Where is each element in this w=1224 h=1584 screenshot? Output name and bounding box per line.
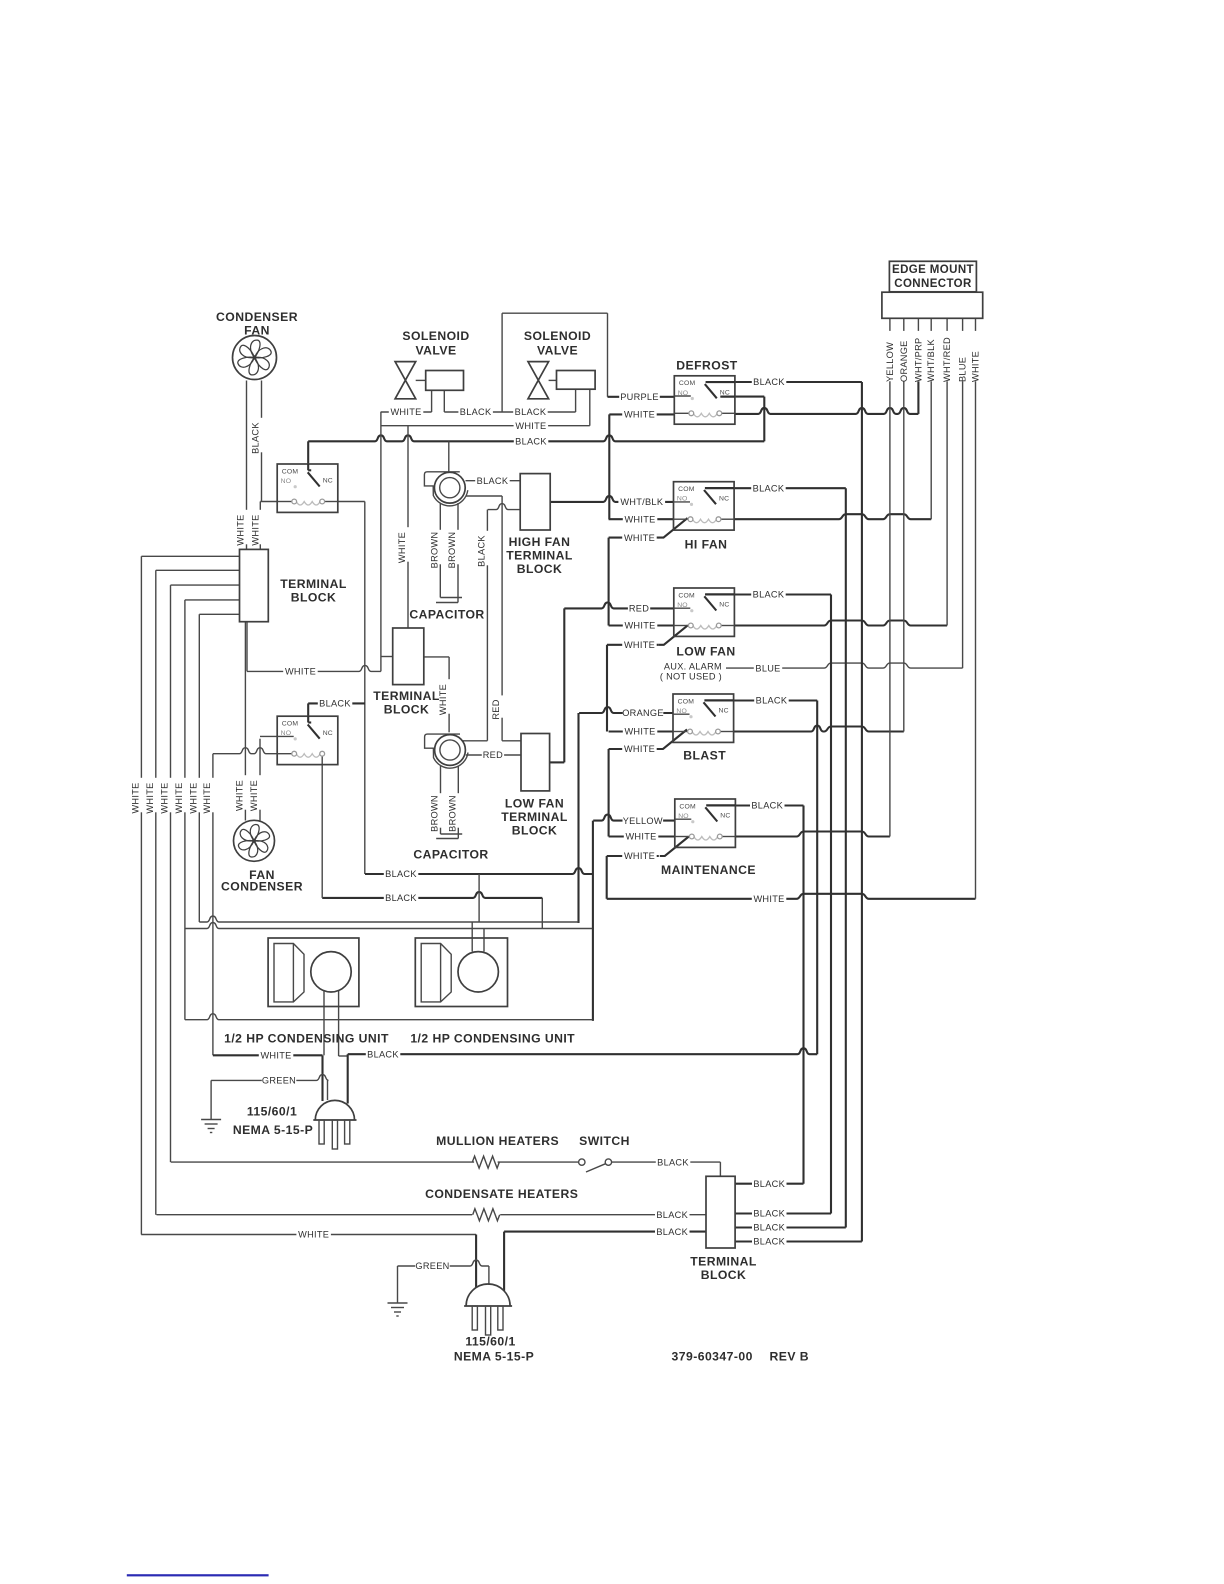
svg-text:BLACK: BLACK [515, 407, 547, 417]
wire: BLACK row2 from S2 [322, 892, 542, 898]
svg-text:TERMINAL: TERMINAL [280, 577, 347, 591]
wire label BLACK [752, 1223, 787, 1233]
wire label WHITE [752, 895, 787, 905]
svg-text:BROWN: BROWN [447, 532, 457, 569]
wire: left TB rows to bus wires [141, 555, 239, 557]
svg-text:WHT/PRP: WHT/PRP [913, 338, 923, 382]
svg-text:SWITCH: SWITCH [579, 1134, 630, 1148]
switch BLAST [673, 694, 734, 742]
svg-text:BLACK: BLACK [753, 1237, 785, 1247]
wire label WHITE (vertical) [255, 775, 265, 810]
svg-text:NC: NC [720, 813, 730, 820]
wire: mid TB right to blower2 [424, 656, 449, 658]
wire: MAINT rowC white + chain down to white return [607, 855, 659, 857]
wire: switch S1 NC to black bus [338, 501, 365, 503]
condensate heater resistor R2 [473, 1209, 500, 1221]
wire: MAINTENANCE COM black [707, 804, 804, 806]
condensing unit 2 box [415, 938, 507, 1007]
svg-text:CAPACITOR: CAPACITOR [413, 848, 488, 862]
svg-text:WHITE: WHITE [624, 744, 655, 754]
svg-text:HIGH FAN: HIGH FAN [509, 535, 571, 549]
svg-text:WHITE: WHITE [130, 782, 140, 813]
wire: mullion heaters row [171, 1161, 474, 1163]
svg-text:WHITE: WHITE [624, 727, 655, 737]
svg-text:NO: NO [281, 730, 292, 737]
wire label WHITE [389, 408, 424, 418]
wire: bottom TB right rows to switch buses [735, 1183, 803, 1185]
wire: solenoid WHITE row y425.7 [381, 425, 590, 427]
svg-text:CONNECTOR: CONNECTOR [894, 278, 972, 290]
wire label WHT/BLK [618, 498, 665, 508]
compressor symbol unit1 [274, 944, 304, 1002]
svg-text:WHITE: WHITE [971, 351, 981, 382]
svg-text:YELLOW: YELLOW [885, 342, 895, 382]
svg-text:BLACK: BLACK [657, 1157, 689, 1167]
wire label BLACK [384, 894, 419, 904]
svg-text:BLACK: BLACK [753, 1209, 785, 1219]
switch MAINTENANCE [675, 799, 736, 847]
wire: MAINT black bus [802, 806, 804, 1184]
svg-text:COM: COM [282, 468, 299, 475]
wire label BLACK [655, 1227, 690, 1237]
low fan terminal block TB4 [521, 734, 550, 791]
wire: WHITE return row to edge WHITE [607, 894, 976, 899]
wire: BLAST rowC white + chain [609, 748, 659, 750]
wire: white row y922 to unit2 motor and orange riser [199, 916, 578, 922]
wire: LOW FAN rowC white + chain [607, 644, 659, 646]
wire: brown capacitor1 leads [439, 503, 441, 598]
wire label BLACK [750, 801, 785, 811]
svg-text:WHITE: WHITE [260, 1051, 291, 1061]
wire: valve2 coil leads [575, 389, 577, 412]
wire: LOW FAN black bus [830, 595, 832, 1214]
svg-text:1/2 HP CONDENSING UNIT: 1/2 HP CONDENSING UNIT [224, 1032, 389, 1046]
wire: S2 COM black to bus [308, 702, 365, 704]
wire: unit2 motor leads [471, 922, 473, 952]
wire: S2 rowA to fan condenser lead [260, 735, 277, 737]
wire: green2 to plug2 and ground [398, 1260, 489, 1266]
wire: HI FAN rowB white to edge WHT/BLK [609, 518, 674, 520]
wire: edge WHT/RED down to low fan rowB [946, 381, 948, 625]
svg-text:COM: COM [678, 486, 695, 493]
svg-text:NO: NO [676, 708, 687, 715]
svg-text:WHITE: WHITE [624, 533, 655, 543]
svg-text:1/2 HP CONDENSING UNIT: 1/2 HP CONDENSING UNIT [410, 1032, 575, 1046]
wire: heavy BLACK row y441 defrost loop [308, 435, 764, 441]
power plug P2 NEMA 5-15-P [464, 1284, 512, 1335]
wire label WHITE [623, 621, 658, 631]
wire: left white bus verticals [140, 556, 142, 1234]
wire: edge connector stubs [889, 318, 891, 331]
svg-text:BLACK: BLACK [460, 407, 492, 417]
wire: GREEN to plug1 and ground [211, 1074, 328, 1080]
wire: BLAST COM black [705, 699, 817, 701]
wire: edge ORANGE down to blast rowB [903, 381, 905, 731]
svg-text:NEMA 5-15-P: NEMA 5-15-P [233, 1123, 313, 1137]
svg-text:BLOCK: BLOCK [512, 824, 558, 838]
svg-text:TERMINAL: TERMINAL [506, 549, 573, 563]
svg-text:BLACK: BLACK [656, 1210, 688, 1220]
svg-text:WHITE: WHITE [390, 407, 421, 417]
wire: solenoid valve row WHITE/BLACK y412 [381, 411, 432, 413]
solenoid valve V1 body [395, 362, 416, 399]
svg-text:WHITE: WHITE [624, 410, 655, 420]
svg-text:YELLOW: YELLOW [623, 816, 663, 826]
wire label ORANGE [623, 709, 664, 719]
svg-text:BROWN: BROWN [430, 795, 440, 832]
wire label WHITE (vertical) [194, 778, 204, 813]
condenser fan motor [233, 336, 277, 380]
wire label BROWN (vertical) [435, 530, 445, 565]
wire: HI FAN rowC white + chain down [609, 537, 659, 539]
svg-text:NC: NC [719, 602, 729, 609]
svg-text:MAINTENANCE: MAINTENANCE [661, 863, 756, 877]
wire label BLACK (vertical) [482, 531, 492, 566]
wire: WHITE row to plug1 [213, 1054, 323, 1056]
wire label BLACK [513, 408, 548, 418]
svg-text:COM: COM [678, 592, 695, 599]
blower motor B1 (high fan) [424, 472, 467, 506]
wire label BLACK [475, 476, 510, 486]
wire: HI FAN black bus [845, 488, 847, 1227]
wire: condensate heaters row [157, 1214, 473, 1216]
wire: S1 COM up to defrost loop [307, 441, 309, 464]
svg-text:NO: NO [678, 813, 689, 820]
svg-text:BLACK: BLACK [756, 696, 788, 706]
wire label WHITE [296, 1230, 331, 1240]
svg-text:WHITE: WHITE [236, 514, 246, 545]
svg-text:CONDENSER: CONDENSER [221, 880, 303, 894]
wire label WHITE (vertical) [180, 778, 190, 813]
svg-text:COM: COM [679, 380, 696, 387]
svg-text:BLACK: BLACK [656, 1227, 688, 1237]
wire: LOW FAN rowB white to edge WHT/RED [609, 624, 674, 626]
wire: BLAST black bus [816, 701, 818, 1055]
wire: BLAST rowB white to edge ORANGE [609, 730, 673, 732]
wire label BLACK [752, 1237, 787, 1247]
svg-text:115/60/1: 115/60/1 [465, 1335, 515, 1349]
svg-text:BLACK: BLACK [751, 801, 783, 811]
wire: LOW FAN COM black [705, 593, 831, 595]
wire: white feeder to S2 rowB [213, 748, 277, 754]
svg-text:NC: NC [719, 708, 729, 715]
svg-text:BLACK: BLACK [515, 437, 547, 447]
switch S1 condenser fan [277, 464, 338, 512]
svg-text:VALVE: VALVE [537, 344, 578, 358]
wire label WHITE [622, 410, 657, 420]
wire label BLACK (vertical) [257, 418, 267, 453]
wire: ORANGE feeder [579, 707, 673, 713]
svg-text:RED: RED [491, 699, 501, 719]
svg-text:VALVE: VALVE [415, 344, 456, 358]
svg-text:WHITE: WHITE [145, 782, 155, 813]
wire label WHITE [624, 832, 659, 842]
edge mount connector body [882, 292, 983, 318]
svg-text:BLAST: BLAST [683, 749, 726, 763]
svg-text:BLACK: BLACK [385, 893, 417, 903]
svg-text:WHITE: WHITE [625, 832, 656, 842]
wire label WHITE (vertical) [166, 778, 176, 813]
svg-text:MULLION HEATERS: MULLION HEATERS [436, 1134, 559, 1148]
wire: BLACK row from plug1 to blast bus [348, 1048, 818, 1054]
svg-text:DEFROST: DEFROST [676, 359, 737, 373]
svg-text:WHITE: WHITE [188, 782, 198, 813]
wire: blower1 black to high fan TB [466, 480, 521, 482]
wire label GREEN [262, 1076, 297, 1086]
svg-text:BLUE: BLUE [755, 663, 780, 673]
svg-text:BLOCK: BLOCK [701, 1268, 747, 1282]
capacitor C2 plates [441, 833, 463, 835]
svg-text:AUX. ALARM: AUX. ALARM [664, 662, 722, 672]
mullion heater resistor R1 [472, 1156, 499, 1168]
svg-text:NO: NO [281, 478, 292, 485]
svg-text:WHITE: WHITE [515, 421, 546, 431]
svg-text:FAN: FAN [244, 324, 270, 338]
svg-text:TERMINAL: TERMINAL [373, 689, 440, 703]
svg-text:COM: COM [678, 698, 695, 705]
svg-text:BLACK: BLACK [753, 377, 785, 387]
wire label BROWN (vertical) [453, 530, 463, 565]
wire label WHITE (vertical) [403, 527, 413, 562]
svg-text:NO: NO [677, 496, 688, 503]
wire: white chain defrost to hi fan [608, 414, 610, 519]
svg-text:TERMINAL: TERMINAL [690, 1255, 757, 1269]
wire label BLACK [751, 484, 786, 494]
wire: blower1 top lead [448, 441, 450, 471]
fan condenser motor [234, 820, 275, 861]
wire: unit1 motor bottom leads [323, 991, 325, 1055]
wire label WHITE [623, 727, 658, 737]
wire label BLUE [754, 664, 782, 674]
wire label BLACK [752, 1209, 787, 1219]
svg-text:WHITE: WHITE [624, 514, 655, 524]
svg-text:TERMINAL: TERMINAL [501, 810, 568, 824]
wire label BLACK [384, 870, 419, 880]
svg-text:WHITE: WHITE [234, 780, 244, 811]
svg-text:BLACK: BLACK [385, 869, 417, 879]
svg-text:WHITE: WHITE [249, 780, 259, 811]
wire label RED (vertical) [497, 695, 507, 717]
wire label BLACK [366, 1050, 401, 1060]
wire: BLACK row1 fan-condenser area [365, 868, 593, 874]
wire: DEFROST rowB white to edge WHT/PRP [609, 413, 674, 415]
wire: solenoid box around valve2 [501, 313, 503, 412]
svg-text:WHITE: WHITE [160, 782, 170, 813]
svg-text:NO: NO [678, 390, 689, 397]
svg-text:BLOCK: BLOCK [291, 591, 337, 605]
svg-text:BLACK: BLACK [319, 699, 351, 709]
wire: YELLOW feeder [593, 815, 675, 821]
svg-text:EDGE MOUNT: EDGE MOUNT [892, 264, 974, 276]
wire label WHITE (vertical) [240, 775, 250, 810]
switch S2 fan condenser [277, 716, 338, 764]
svg-text:BLACK: BLACK [477, 476, 509, 486]
svg-text:NO: NO [677, 602, 688, 609]
wire label RED [628, 604, 650, 614]
svg-text:BLACK: BLACK [753, 1223, 785, 1233]
motor circle unit1 [311, 952, 351, 992]
wire: edge WHT/BLK down to hi fan rowB [930, 381, 932, 519]
svg-text:BLOCK: BLOCK [517, 562, 563, 576]
wire label PURPLE [619, 393, 660, 403]
svg-text:NC: NC [719, 495, 729, 502]
svg-text:BLACK: BLACK [753, 1179, 785, 1189]
wire label WHITE [622, 533, 657, 543]
ground symbol G2 [388, 1303, 408, 1316]
svg-text:WHT/RED: WHT/RED [942, 337, 952, 382]
wire: blower1 to red chain [466, 495, 502, 497]
svg-text:WHITE: WHITE [285, 667, 316, 677]
wire: WHT/BLK feeder from high fan TB [550, 496, 673, 502]
ground symbol G1 [201, 1120, 221, 1133]
motor circle unit2 [458, 952, 498, 992]
wire label RED [482, 751, 504, 761]
svg-text:WHITE: WHITE [753, 894, 784, 904]
svg-text:WHITE: WHITE [202, 782, 212, 813]
wire: red chain vertical [501, 496, 503, 741]
svg-text:WHITE: WHITE [298, 1230, 329, 1240]
svg-text:RED: RED [483, 750, 503, 760]
power plug P1 NEMA 5-15-P [313, 1100, 356, 1149]
wire label BLACK [514, 437, 549, 447]
svg-text:WHT/BLK: WHT/BLK [620, 497, 664, 507]
wire label BROWN (vertical) [436, 793, 446, 828]
wire: PURPLE feeder to DEFROST [608, 396, 675, 398]
svg-text:GREEN: GREEN [415, 1261, 449, 1271]
blower motor B2 (low fan) [425, 734, 468, 768]
wire: RED feeder from low fan TB [564, 602, 674, 608]
svg-text:ORANGE: ORANGE [899, 340, 909, 382]
svg-text:NC: NC [720, 389, 730, 396]
high fan terminal block TB3 [520, 474, 550, 530]
wire: white row from left TB to valve vertical [247, 665, 381, 671]
wire label WHITE [623, 515, 658, 525]
wire: condenser fan leads [246, 381, 248, 550]
condensing enclosure box edges [185, 923, 592, 929]
switch LOW FAN [674, 588, 735, 636]
wire: edge YELLOW down to maint rowB [889, 381, 891, 836]
svg-text:WHITE: WHITE [397, 532, 407, 563]
solenoid valve V1 coil [416, 379, 426, 381]
blue link line [127, 1574, 269, 1576]
svg-text:BLACK: BLACK [251, 422, 261, 454]
svg-text:CAPACITOR: CAPACITOR [409, 608, 484, 622]
svg-text:SOLENOID: SOLENOID [402, 329, 469, 343]
wire: blower2 red row to low fan TB [466, 754, 521, 756]
svg-text:GREEN: GREEN [262, 1076, 296, 1086]
svg-text:PURPLE: PURPLE [620, 392, 659, 402]
wire label WHITE (vertical) [151, 778, 161, 813]
svg-text:BLACK: BLACK [753, 590, 785, 600]
wire: brown capacitor2 leads [440, 766, 442, 835]
wire label BLACK [655, 1210, 690, 1220]
svg-text:BROWN: BROWN [429, 532, 439, 569]
solenoid valve V2 coil [549, 379, 557, 381]
svg-text:NC: NC [323, 730, 333, 737]
svg-text:CONDENSER: CONDENSER [216, 310, 298, 324]
capacitor C1 plates [440, 597, 462, 599]
svg-text:COM: COM [282, 721, 299, 728]
wire label GREEN [415, 1262, 450, 1272]
wire: DEFROST COM black [706, 381, 862, 383]
wire label WHITE [622, 641, 657, 651]
wire label BLACK [458, 408, 493, 418]
wire label WHITE (vertical) [444, 679, 454, 714]
wire label BLACK [754, 696, 789, 706]
svg-text:WHITE: WHITE [624, 851, 655, 861]
wire label WHITE [622, 745, 657, 755]
wire label WHITE (vertical) [242, 510, 252, 545]
svg-text:WHITE: WHITE [251, 514, 261, 545]
wire label BLACK [752, 1179, 787, 1189]
svg-text:COM: COM [679, 803, 696, 810]
wire: mid TB top lead [407, 426, 409, 628]
wire: edge WHITE down to white return row [975, 381, 977, 899]
svg-text:ORANGE: ORANGE [622, 708, 664, 718]
wire label BLACK [751, 590, 786, 600]
svg-text:WHITE: WHITE [438, 684, 448, 715]
wire: black drop from high-fan TB [488, 504, 521, 510]
switch SW mullion [579, 1159, 585, 1165]
wire label BLACK [656, 1158, 691, 1168]
svg-text:REV B: REV B [770, 1350, 810, 1364]
terminal block TB2 (middle) [393, 628, 424, 685]
svg-text:WHITE: WHITE [624, 640, 655, 650]
wire: AUX ALARM blue to edge BLUE [726, 663, 963, 668]
terminal block TB1 (left) [240, 549, 269, 621]
svg-text:LOW FAN: LOW FAN [505, 797, 564, 811]
wire: DEFROST black bus [861, 382, 863, 1242]
svg-text:LOW FAN: LOW FAN [676, 645, 735, 659]
switch HI FAN [674, 482, 735, 530]
svg-text:CONDENSATE HEATERS: CONDENSATE HEATERS [425, 1187, 578, 1201]
svg-text:WHITE: WHITE [624, 621, 655, 631]
compressor symbol unit2 [421, 944, 451, 1002]
wire: MAINT rowB white to edge YELLOW [609, 835, 675, 837]
svg-text:BLACK: BLACK [753, 483, 785, 493]
wire: black bus from S1-NC down to BLACK row [364, 502, 366, 875]
condensing unit 1 box [268, 938, 359, 1007]
wire label WHITE [283, 667, 318, 677]
wire label BLACK [318, 699, 353, 709]
svg-text:HI FAN: HI FAN [685, 538, 728, 552]
wire: plug2 black row to terminal block [504, 1231, 706, 1233]
aux alarm label [657, 662, 723, 672]
wire: edge BLUE down to aux alarm row [962, 381, 964, 668]
wire: valve1 white vertical to mid terminal block [380, 412, 382, 671]
wire: left TB bottom stub to white row [246, 622, 248, 672]
svg-text:BLACK: BLACK [367, 1049, 399, 1059]
svg-text:BLOCK: BLOCK [384, 703, 430, 717]
solenoid valve V2 body [528, 362, 549, 399]
wire: HI FAN COM black [705, 487, 846, 489]
wire label BLACK [752, 378, 787, 388]
bottom terminal block TB5 [706, 1176, 735, 1248]
wire: valve1 coil leads [431, 390, 433, 412]
wire label WHITE (vertical) [208, 778, 218, 813]
svg-text:NEMA 5-15-P: NEMA 5-15-P [454, 1350, 534, 1364]
edge mount connector label box [889, 261, 976, 292]
wire: DEFROST NC loop [721, 396, 765, 398]
svg-text:RED: RED [629, 604, 649, 614]
svg-text:BLACK: BLACK [476, 535, 486, 567]
wire label WHITE [622, 852, 657, 862]
svg-text:115/60/1: 115/60/1 [247, 1105, 297, 1119]
wire label WHITE (vertical) [136, 778, 146, 813]
wire: fan condenser leads [244, 622, 246, 821]
svg-text:SOLENOID: SOLENOID [524, 329, 591, 343]
wire label WHITE [259, 1051, 294, 1061]
